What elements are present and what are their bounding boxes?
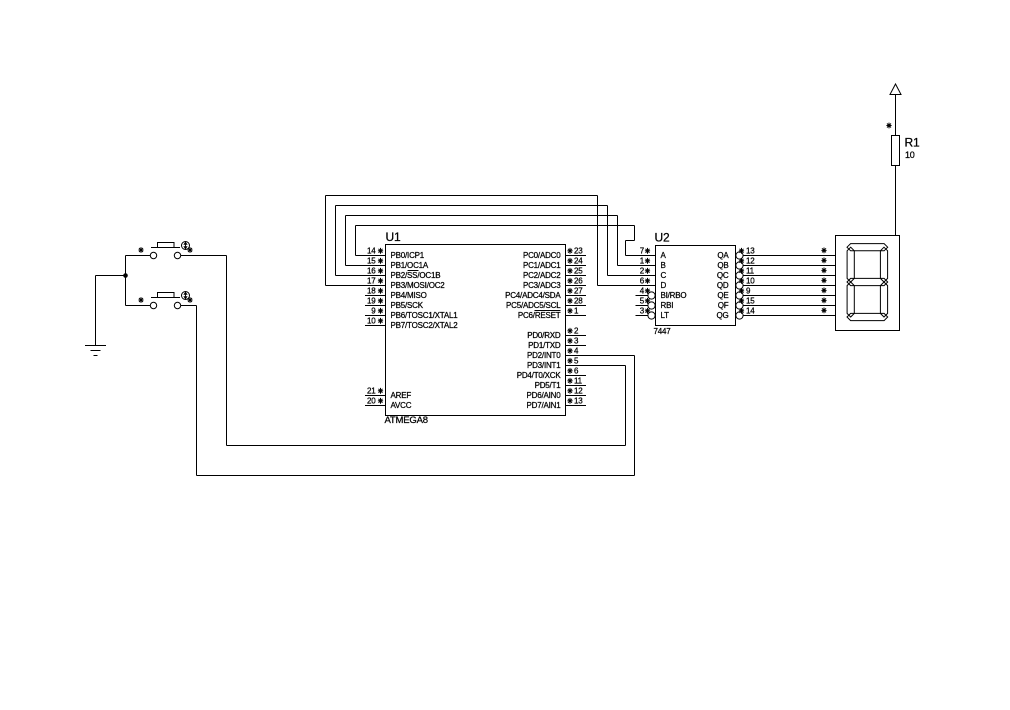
U1 pin 3 (PD1/TXD) stub bbox=[566, 345, 587, 347]
wire PB2 net top horizontal bbox=[336, 205, 608, 207]
svg-text:12: 12 bbox=[574, 387, 583, 396]
wire U1 PB3 pin lead bbox=[326, 285, 386, 287]
U2 pin 15 (QF) inversion bubble bbox=[736, 302, 743, 309]
wire power arrow to R1 top bbox=[895, 95, 897, 136]
net marker at U2 pin 15 bbox=[739, 298, 744, 304]
svg-text:QC: QC bbox=[717, 271, 729, 280]
wire button1 net vertical down bbox=[226, 256, 228, 446]
svg-text:18: 18 bbox=[367, 287, 376, 296]
U1 pin 13 (PD7/AIN1) stub bbox=[566, 405, 587, 407]
U2 pin 13 (QA) inversion bubble bbox=[736, 252, 743, 259]
display segment F (top-left) bbox=[847, 247, 854, 282]
wire R1 bottom to display common pin bbox=[895, 166, 897, 236]
net marker at U1 pin 17 bbox=[378, 278, 383, 284]
net marker at U1 pin 19 bbox=[378, 298, 383, 304]
U1 pin 16 (PB2/SS/OC1B) stub bbox=[365, 275, 386, 277]
net marker at U2 pin 13 bbox=[739, 248, 744, 254]
wire PB2 net vertical up bbox=[335, 206, 337, 276]
svg-text:PB2/SS/OC1B: PB2/SS/OC1B bbox=[391, 271, 441, 280]
svg-text:11: 11 bbox=[746, 267, 755, 276]
svg-text:11: 11 bbox=[574, 377, 583, 386]
overline over SS in PB2/SS/OC1B bbox=[408, 270, 419, 272]
power rail arrow symbol bbox=[890, 84, 901, 95]
wire PB1 net vertical up bbox=[345, 216, 347, 266]
svg-text:PB5/SCK: PB5/SCK bbox=[391, 301, 424, 310]
U1 pin 23 (PC0/ADC0) stub bbox=[566, 255, 587, 257]
svg-text:PD2/INT0: PD2/INT0 bbox=[527, 351, 561, 360]
U1 pin 10 (PB7/TOSC2/XTAL2) stub bbox=[365, 325, 386, 327]
net marker at U2 pin 10 bbox=[739, 278, 744, 284]
net marker left of button 2 (bottom) bbox=[138, 297, 143, 303]
net marker at U1 pin 10 bbox=[378, 318, 383, 324]
U1 pin 18 (PB4/MISO) stub bbox=[365, 295, 386, 297]
display segment A (top) bbox=[847, 244, 888, 251]
svg-text:PB0/ICP1: PB0/ICP1 bbox=[391, 251, 425, 260]
7-segment display body bbox=[836, 236, 900, 331]
net marker at U2 pin 7 bbox=[645, 248, 650, 254]
net marker at U1 pin 24 bbox=[567, 258, 572, 264]
svg-text:LT: LT bbox=[661, 311, 670, 320]
U1 pin 21 (AREF) stub bbox=[365, 395, 386, 397]
svg-text:R1: R1 bbox=[905, 136, 920, 150]
U2 pin 10 (QD) inversion bubble bbox=[736, 282, 743, 289]
U1 pin 24 (PC1/ADC1) stub bbox=[566, 265, 587, 267]
svg-text:QG: QG bbox=[716, 311, 728, 320]
net marker at U1 pin 14 bbox=[378, 248, 383, 254]
net marker at U1 pin 12 bbox=[567, 388, 572, 394]
svg-text:20: 20 bbox=[367, 397, 376, 406]
wire PB3 net top horizontal bbox=[326, 195, 598, 197]
svg-text:PB4/MISO: PB4/MISO bbox=[391, 291, 427, 300]
wire into U1 pin 4 PD2 bbox=[586, 355, 635, 357]
net marker at U2 pin 2 bbox=[645, 268, 650, 274]
wire PB0 net vertical up bbox=[355, 226, 357, 256]
svg-text:C: C bbox=[661, 271, 667, 280]
net marker at U1 pin 3 bbox=[567, 338, 572, 344]
U2 pin 14 (QG) inversion bubble bbox=[736, 312, 743, 319]
display segment E (bottom-left) bbox=[847, 282, 854, 317]
net marker at U2 pin 3 bbox=[645, 308, 650, 314]
wire U1 PB2 pin lead bbox=[336, 275, 386, 277]
U1 pin 11 (PD5/T1) stub bbox=[566, 385, 587, 387]
wire PB0 net jog down 2 bbox=[625, 241, 627, 256]
svg-text:28: 28 bbox=[574, 297, 583, 306]
svg-text:PC6/RESET: PC6/RESET bbox=[518, 311, 561, 320]
U1 pin 27 (PC4/ADC4/SDA) stub bbox=[566, 295, 587, 297]
U2 pin 9 (QE) inversion bubble bbox=[736, 292, 743, 299]
svg-text:10: 10 bbox=[367, 317, 376, 326]
push button button 1 (top): actuator circle bbox=[182, 242, 190, 250]
net marker at U1 pin 27 bbox=[567, 288, 572, 294]
svg-text:QA: QA bbox=[717, 251, 729, 260]
svg-text:RBI: RBI bbox=[661, 301, 674, 310]
net marker at U1 pin 1 bbox=[567, 308, 572, 314]
U1 pin 1 (PC6/RESET) stub bbox=[566, 315, 587, 317]
svg-text:AVCC: AVCC bbox=[391, 401, 412, 410]
svg-text:15: 15 bbox=[746, 297, 755, 306]
net marker near display pin row QG bbox=[821, 308, 826, 314]
push button button 2 (bottom): right contact bbox=[174, 302, 180, 308]
svg-text:27: 27 bbox=[574, 287, 583, 296]
net marker at U1 pin 26 bbox=[567, 278, 572, 284]
net marker at U2 pin 4 bbox=[645, 288, 650, 294]
net marker at U1 pin 28 bbox=[567, 298, 572, 304]
svg-text:21: 21 bbox=[367, 387, 376, 396]
push button button 1 (top): contact bar bbox=[151, 247, 180, 249]
svg-text:14: 14 bbox=[367, 247, 376, 256]
push button button 2 (bottom): actuator arrows bbox=[184, 292, 187, 298]
U1 pin 12 (PD6/AIN0) stub bbox=[566, 395, 587, 397]
U2 pin 5 (RBI) stub bbox=[636, 305, 648, 307]
net marker at U1 pin 15 bbox=[378, 258, 383, 264]
net marker at U2 pin 11 bbox=[739, 268, 744, 274]
wire into U2 pin C bbox=[608, 275, 656, 277]
net marker at U1 pin 21 bbox=[378, 388, 383, 394]
wire U1 PB1 pin lead bbox=[346, 265, 386, 267]
svg-text:16: 16 bbox=[367, 267, 376, 276]
wire PB0 net top horizontal bbox=[356, 225, 635, 227]
net marker right of button 1 (top) bbox=[187, 247, 192, 253]
svg-text:U1: U1 bbox=[386, 230, 401, 244]
net marker at U2 pin 14 bbox=[739, 308, 744, 314]
push button button 1 (top): left contact bbox=[150, 252, 156, 258]
svg-text:PD1/TXD: PD1/TXD bbox=[528, 341, 561, 350]
display segment G (middle) bbox=[847, 278, 888, 285]
U1 pin 5 (PD3/INT1) stub bbox=[566, 365, 587, 367]
display segment B (top-right) bbox=[880, 247, 887, 282]
wire U2 QD to display segment bbox=[743, 285, 836, 287]
net marker at U1 pin 9 bbox=[378, 308, 383, 314]
net marker at U1 pin 5 bbox=[567, 358, 572, 364]
svg-text:PD3/INT1: PD3/INT1 bbox=[527, 361, 561, 370]
U1 pin 25 (PC2/ADC2) stub bbox=[566, 275, 587, 277]
net marker at U2 pin 6 bbox=[645, 278, 650, 284]
svg-text:24: 24 bbox=[574, 257, 583, 266]
U1 pin 4 (PD2/INT0) stub bbox=[566, 355, 587, 357]
net marker at U1 pin 13 bbox=[567, 398, 572, 404]
svg-text:BI/RBO: BI/RBO bbox=[661, 291, 687, 300]
wire into U2 pin D bbox=[598, 285, 656, 287]
wire into U2 pin B bbox=[618, 265, 656, 267]
U2 pin 12 (QB) inversion bubble bbox=[736, 262, 743, 269]
wire U2 QG to display segment bbox=[743, 315, 836, 317]
U2 pin 4 inversion bubble bbox=[648, 292, 655, 299]
wire common vertical between buttons bbox=[125, 256, 127, 306]
svg-text:26: 26 bbox=[574, 277, 583, 286]
wire PB1 net vertical down bbox=[617, 216, 619, 266]
push button button 2 (bottom): left contact bbox=[150, 302, 156, 308]
svg-text:PD6/AIN0: PD6/AIN0 bbox=[527, 391, 562, 400]
svg-text:PC0/ADC0: PC0/ADC0 bbox=[523, 251, 561, 260]
svg-text:13: 13 bbox=[746, 247, 755, 256]
U1 pin 2 (PD0/RXD) stub bbox=[566, 335, 587, 337]
net marker at U1 pin 16 bbox=[378, 268, 383, 274]
svg-text:QD: QD bbox=[717, 281, 729, 290]
net marker at U1 pin 23 bbox=[567, 248, 572, 254]
wire U2 QF to display segment bbox=[743, 305, 836, 307]
svg-text:PD5/T1: PD5/T1 bbox=[535, 381, 562, 390]
svg-text:25: 25 bbox=[574, 267, 583, 276]
net marker at U1 pin 6 bbox=[567, 368, 572, 374]
U2 pin 4 (BI/RBO) stub bbox=[636, 295, 648, 297]
svg-text:D: D bbox=[661, 281, 667, 290]
wire into U2 pin A bbox=[626, 255, 656, 257]
net marker left of button 1 (top) bbox=[138, 247, 143, 253]
svg-text:PC2/ADC2: PC2/ADC2 bbox=[523, 271, 561, 280]
net marker at U2 pin 12 bbox=[739, 258, 744, 264]
display segment D (bottom) bbox=[847, 313, 888, 320]
svg-text:PC5/ADC5/SCL: PC5/ADC5/SCL bbox=[506, 301, 561, 310]
net marker near display pin row QE bbox=[821, 288, 826, 294]
wire PB0 net jog left bbox=[626, 240, 635, 242]
IC U2 7447 body bbox=[656, 246, 736, 326]
svg-text:AREF: AREF bbox=[391, 391, 412, 400]
wire PB0 net jog down bbox=[634, 226, 636, 241]
wire button1 left contact to common vertical bbox=[126, 255, 151, 257]
wire PB3 net vertical up bbox=[325, 196, 327, 286]
overline over RESET in PC6/RESET bbox=[535, 310, 561, 312]
wire U2 QC to display segment bbox=[743, 275, 836, 277]
U2 pin 5 inversion bubble bbox=[648, 302, 655, 309]
svg-text:A: A bbox=[661, 251, 667, 260]
net marker at U2 pin 1 bbox=[645, 258, 650, 264]
svg-text:PC1/ADC1: PC1/ADC1 bbox=[523, 261, 561, 270]
U1 pin 6 (PD4/T0/XCK) stub bbox=[566, 375, 587, 377]
wire button2 left contact bbox=[126, 305, 151, 307]
net marker at U1 pin 18 bbox=[378, 288, 383, 294]
wire U2 QB to display segment bbox=[743, 265, 836, 267]
net marker at U2 pin 9 bbox=[739, 288, 744, 294]
svg-text:12: 12 bbox=[746, 257, 755, 266]
U1 pin 14 (PB0/ICP1) stub bbox=[365, 255, 386, 257]
svg-text:PB6/TOSC1/XTAL1: PB6/TOSC1/XTAL1 bbox=[391, 311, 459, 320]
svg-text:10: 10 bbox=[905, 150, 915, 160]
svg-text:10: 10 bbox=[746, 277, 755, 286]
push button button 1 (top): right contact bbox=[174, 252, 180, 258]
wire junction to ground branch bbox=[96, 275, 126, 277]
display segment C (bottom-right) bbox=[880, 282, 887, 317]
net marker at U1 pin 11 bbox=[567, 378, 572, 384]
svg-text:B: B bbox=[661, 261, 666, 270]
svg-text:U2: U2 bbox=[655, 231, 670, 245]
push button button 2 (bottom): cap bbox=[158, 293, 175, 298]
wire U2 QA to display segment bbox=[743, 255, 836, 257]
push button button 2 (bottom): actuator circle bbox=[182, 292, 190, 300]
U1 pin 9 (PB6/TOSC1/XTAL1) stub bbox=[365, 315, 386, 317]
ground symbol bbox=[85, 346, 106, 356]
svg-text:ATMEGA8: ATMEGA8 bbox=[385, 415, 428, 426]
net marker at U1 pin 4 bbox=[567, 348, 572, 354]
wire PB2 net vertical down bbox=[607, 206, 609, 276]
junction dot buttons/ground bbox=[123, 273, 128, 278]
U2 pin 11 (QC) inversion bubble bbox=[736, 272, 743, 279]
svg-text:QF: QF bbox=[718, 301, 729, 310]
wire button2 net horizontal bottom bbox=[197, 475, 635, 477]
svg-text:PD0/RXD: PD0/RXD bbox=[527, 331, 561, 340]
svg-text:QB: QB bbox=[717, 261, 728, 270]
svg-text:QE: QE bbox=[717, 291, 728, 300]
svg-text:PC3/ADC3: PC3/ADC3 bbox=[523, 281, 561, 290]
U1 pin 17 (PB3/MOSI/OC2) stub bbox=[365, 285, 386, 287]
U2 pin 3 (LT) stub bbox=[636, 315, 648, 317]
U1 pin 26 (PC3/ADC3) stub bbox=[566, 285, 587, 287]
svg-text:23: 23 bbox=[574, 247, 583, 256]
wire PB3 net vertical down bbox=[597, 196, 599, 286]
U1 pin 19 (PB5/SCK) stub bbox=[365, 305, 386, 307]
svg-text:14: 14 bbox=[746, 307, 755, 316]
wire button1 right contact to corner bbox=[181, 255, 227, 257]
svg-text:PD4/T0/XCK: PD4/T0/XCK bbox=[517, 371, 562, 380]
wire PB1 net top horizontal bbox=[346, 215, 618, 217]
svg-text:PD7/AIN1: PD7/AIN1 bbox=[527, 401, 562, 410]
net marker right of button 2 (bottom) bbox=[187, 297, 192, 303]
wire button2 right contact to corner bbox=[181, 305, 197, 307]
svg-text:13: 13 bbox=[574, 397, 583, 406]
push button button 1 (top): cap bbox=[158, 243, 175, 248]
U1 pin 28 (PC5/ADC5/SCL) stub bbox=[566, 305, 587, 307]
wire button1 net vertical up to PD3 bbox=[625, 366, 627, 446]
wire U2 QE to display segment bbox=[743, 295, 836, 297]
wire down to ground bbox=[95, 276, 97, 346]
svg-text:PB3/MOSI/OC2: PB3/MOSI/OC2 bbox=[391, 281, 446, 290]
push button button 1 (top): actuator arrows bbox=[184, 242, 187, 248]
net marker near display pin row QC bbox=[821, 268, 826, 274]
net marker at U2 pin 5 bbox=[645, 298, 650, 304]
IC U1 ATMEGA8 body bbox=[386, 245, 566, 416]
net marker near display pin row QF bbox=[821, 298, 826, 304]
svg-text:PC4/ADC4/SDA: PC4/ADC4/SDA bbox=[505, 291, 561, 300]
svg-text:15: 15 bbox=[367, 257, 376, 266]
svg-text:7447: 7447 bbox=[654, 327, 672, 336]
net marker near display pin row QD bbox=[821, 278, 826, 284]
net marker at U1 pin 25 bbox=[567, 268, 572, 274]
svg-text:17: 17 bbox=[367, 277, 376, 286]
svg-text:PB7/TOSC2/XTAL2: PB7/TOSC2/XTAL2 bbox=[391, 321, 459, 330]
U1 pin 20 (AVCC) stub bbox=[365, 405, 386, 407]
U1 pin 15 (PB1/OC1A) stub bbox=[365, 265, 386, 267]
wire button2 net vertical down bbox=[196, 306, 198, 476]
net marker near display pin row QA bbox=[821, 248, 826, 254]
net marker at U1 pin 20 bbox=[378, 398, 383, 404]
svg-text:19: 19 bbox=[367, 297, 376, 306]
resistor R1 body bbox=[892, 136, 900, 166]
net marker at U1 pin 2 bbox=[567, 328, 572, 334]
wire button1 net horizontal bottom bbox=[227, 445, 626, 447]
net marker near R1 top bbox=[886, 123, 891, 129]
U2 pin 3 inversion bubble bbox=[648, 312, 655, 319]
wire U1 PB0 pin lead bbox=[356, 255, 386, 257]
net marker near display pin row QB bbox=[821, 258, 826, 264]
push button button 2 (bottom): contact bar bbox=[151, 297, 180, 299]
wire button2 net vertical up to PD2 bbox=[634, 356, 636, 476]
wire into U1 pin 5 PD3 bbox=[586, 365, 626, 367]
svg-text:PB1/OC1A: PB1/OC1A bbox=[391, 261, 429, 270]
